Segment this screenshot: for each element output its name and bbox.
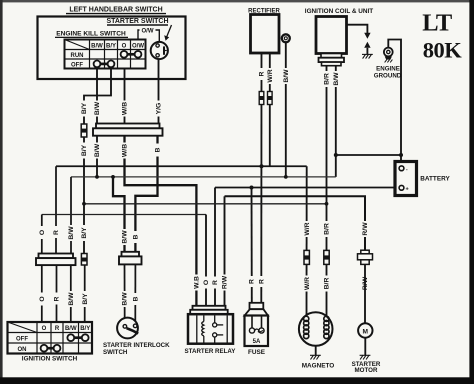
svg-text:MOTOR: MOTOR (355, 367, 378, 374)
svg-text:LEFT HANDLEBAR SWITCH: LEFT HANDLEBAR SWITCH (69, 7, 162, 14)
svg-text:B/R: B/R (324, 73, 331, 85)
svg-text:BATTERY: BATTERY (420, 175, 450, 182)
battery (395, 162, 417, 196)
svg-text:RUN: RUN (71, 53, 84, 59)
svg-text:R: R (249, 279, 256, 284)
wire R to starter relay (214, 188, 216, 306)
bullet connector R (259, 92, 264, 105)
svg-text:B/Y: B/Y (106, 43, 116, 49)
wire label B/W (332, 71, 339, 87)
connector R/W starter motor (361, 250, 369, 254)
svg-text:STARTER SWITCH: STARTER SWITCH (106, 18, 168, 25)
svg-text:+: + (406, 187, 409, 193)
wire B/Y from kill switch (84, 69, 111, 124)
svg-text:B/W: B/W (94, 101, 101, 115)
interlock connector (122, 252, 140, 257)
spark plug gap arrows (364, 33, 370, 39)
left handlebar switch box (38, 17, 186, 80)
bullet connector B/Y (81, 254, 87, 266)
magneto coil right (324, 316, 329, 338)
wire labels above ignition connector (39, 226, 46, 239)
junction dot (111, 175, 115, 179)
wire label B/W (93, 143, 101, 159)
svg-text:B/W: B/W (68, 292, 75, 306)
svg-text:B: B (133, 296, 140, 301)
svg-text:R: R (259, 279, 266, 284)
svg-text:IGNITION SWITCH: IGNITION SWITCH (22, 356, 78, 363)
wire B/W from coil (335, 65, 337, 177)
svg-text:O: O (203, 280, 210, 285)
wire label B (154, 144, 162, 157)
wire B/W from kill switch (96, 69, 98, 124)
svg-text:B/W: B/W (122, 230, 129, 244)
starter interlock switch (117, 318, 138, 339)
kill switch OFF contacts (94, 61, 115, 68)
junction dot (82, 202, 86, 206)
svg-text:ENGINE: ENGINE (376, 65, 400, 72)
svg-text:B/Y: B/Y (81, 144, 88, 156)
svg-text:B/W: B/W (65, 326, 77, 332)
relay coil (203, 316, 205, 322)
wire W/B below connector to starter relay (125, 136, 197, 306)
wire labels below ignition connector (39, 293, 46, 306)
magneto (299, 312, 333, 346)
svg-text:O: O (42, 326, 47, 332)
svg-text:RECTIFIER: RECTIFIER (248, 9, 280, 15)
svg-text:B/Y: B/Y (81, 227, 88, 239)
bus O ignition-relay (42, 214, 206, 216)
starter switch (151, 42, 168, 59)
svg-text:R: R (259, 71, 266, 76)
svg-text:FUSE: FUSE (248, 349, 266, 356)
wires connector to ignition switch (41, 265, 43, 322)
ignition switch table (8, 322, 93, 354)
junction dot (95, 175, 99, 179)
interlock labels below connector (121, 291, 129, 307)
svg-text:80K: 80K (423, 38, 463, 63)
svg-text:O: O (122, 43, 127, 49)
fuse wire labels R R (248, 276, 255, 287)
wire label R (258, 68, 265, 80)
bullet connector B/R (324, 250, 329, 264)
ignition switch connector (39, 254, 74, 259)
svg-text:W.B: W.B (194, 276, 201, 289)
svg-text:B/Y: B/Y (81, 102, 88, 114)
wire label B/R (323, 71, 330, 87)
svg-text:R/W: R/W (222, 275, 229, 289)
wire W/R from rectifier (269, 53, 271, 166)
battery positive bus (215, 187, 399, 189)
wire B/W below connector (96, 136, 98, 177)
interlock wire labels above connector (121, 229, 129, 245)
svg-text:O: O (39, 296, 46, 301)
svg-text:ENGINE KILL SWITCH: ENGINE KILL SWITCH (56, 31, 126, 38)
svg-text:5A: 5A (253, 339, 261, 345)
svg-text:O: O (39, 230, 46, 235)
svg-text:GROUND: GROUND (374, 72, 402, 79)
wires connector to interlock switch (124, 264, 126, 324)
wire label Y/G (155, 101, 163, 117)
svg-text:IGNITION COIL & UNIT: IGNITION COIL & UNIT (305, 8, 373, 15)
starter relay (193, 306, 226, 310)
ring terminal B/W (282, 34, 290, 42)
wire label W/B (121, 101, 129, 117)
coil B/W to battery negative link (336, 154, 401, 156)
svg-text:B/Y: B/Y (82, 293, 89, 305)
spark plug ground hatch (362, 54, 373, 58)
svg-text:W/R: W/R (304, 222, 311, 235)
svg-text:B/W: B/W (94, 143, 101, 157)
relay wire labels (193, 275, 201, 291)
svg-text:STARTER INTERLOCK: STARTER INTERLOCK (103, 342, 170, 349)
bus H2 B/W ground (71, 176, 336, 178)
O/W jumper wire to starter switch (138, 30, 159, 42)
handlebar connector block (96, 124, 160, 129)
kill switch RUN contacts (121, 51, 142, 58)
bus B/Y kill circuit (84, 203, 327, 205)
wire R from rectifier (260, 53, 262, 304)
wire B below connector to interlock (135, 136, 157, 252)
wire R to ignition switch (55, 166, 57, 253)
magneto wire labels low (303, 276, 311, 292)
wire B/W from ring terminal (285, 42, 287, 177)
ignition ON contacts (41, 345, 61, 352)
magneto coil left (304, 316, 309, 338)
svg-text:R: R (54, 296, 61, 301)
svg-text:W/R: W/R (267, 69, 274, 82)
svg-text:R: R (55, 326, 60, 332)
svg-text:M: M (363, 328, 369, 335)
junction dot (250, 186, 254, 190)
wire W/B from kill switch (124, 69, 126, 124)
wire R to fuse (251, 188, 253, 304)
starter motor ground (364, 338, 366, 356)
wire O to ignition switch (41, 215, 43, 254)
ignition coil & unit (316, 17, 347, 54)
svg-text:MAGNETO: MAGNETO (302, 363, 335, 370)
coil base connector (321, 54, 342, 58)
svg-text:OFF: OFF (16, 337, 28, 343)
svg-text:OFF: OFF (71, 63, 83, 69)
svg-text:O/W: O/W (142, 29, 154, 35)
svg-text:R/W: R/W (362, 222, 369, 236)
svg-text:STARTER RELAY: STARTER RELAY (185, 348, 237, 355)
magneto wire labels mid (303, 221, 311, 237)
svg-text:B/R: B/R (324, 223, 331, 235)
wire label B/Y (80, 143, 88, 159)
svg-text:B: B (133, 234, 140, 239)
magneto ground (315, 346, 317, 356)
svg-text:W/R: W/R (304, 277, 311, 290)
ignition OFF contacts (67, 334, 88, 341)
svg-text:W/B: W/B (122, 144, 129, 157)
svg-text:R: R (212, 280, 219, 285)
rectifier U1 (251, 15, 280, 54)
junction dot (399, 153, 403, 157)
wire W/R down to magneto (306, 166, 308, 317)
wire B/W to ignition switch (70, 177, 72, 254)
fuse element 5A (249, 328, 254, 333)
bullet connector B/Y (81, 124, 87, 137)
wire label W/B (121, 143, 129, 159)
wire label B/W (93, 101, 101, 117)
svg-text:SWITCH: SWITCH (103, 349, 128, 356)
svg-text:B/R: B/R (324, 278, 331, 290)
wire Y/G from starter switch (158, 59, 160, 123)
border frame (0, 0, 474, 2)
bus H1 O/R charging (56, 165, 307, 167)
bullet connector W/R (268, 92, 273, 105)
relay contacts (214, 316, 216, 323)
wire B/W to starter interlock (113, 177, 125, 252)
svg-text:B/W: B/W (333, 72, 340, 86)
wire B/R from coil (326, 65, 328, 317)
fuse holder (250, 303, 264, 309)
svg-text:B: B (155, 147, 162, 152)
wire label B/W (282, 68, 289, 84)
svg-text:R: R (53, 230, 60, 235)
engine ground ring terminal (384, 48, 393, 57)
wire engine ground to battery (388, 40, 401, 166)
wire label B/Y (80, 101, 88, 117)
bus R/W starter motor (225, 196, 366, 251)
spark plug wire (347, 25, 368, 33)
junction dot (325, 202, 329, 206)
starter motor (364, 264, 366, 323)
svg-text:B/W: B/W (283, 69, 290, 83)
wire B/Y below connector (83, 137, 85, 254)
svg-text:B/Y: B/Y (80, 326, 90, 332)
svg-text:O/W: O/W (132, 43, 144, 49)
junction dot (284, 175, 288, 179)
svg-text:W/B: W/B (122, 102, 129, 115)
svg-text:ON: ON (18, 347, 27, 353)
engine kill switch table (65, 40, 146, 69)
svg-text:LT: LT (422, 10, 452, 37)
svg-text:Y/G: Y/G (156, 103, 163, 115)
svg-text:B/W: B/W (91, 43, 103, 49)
arrow to starter switch (167, 25, 172, 37)
junction dot (260, 164, 264, 168)
svg-text:B/W: B/W (122, 292, 129, 306)
wire O to starter relay (205, 215, 207, 306)
wire label W/R (266, 68, 273, 84)
wire R/W to starter relay (224, 196, 226, 305)
svg-text:B/W: B/W (68, 226, 75, 240)
junction dot (334, 153, 338, 157)
bullet connector W/R (304, 250, 309, 264)
